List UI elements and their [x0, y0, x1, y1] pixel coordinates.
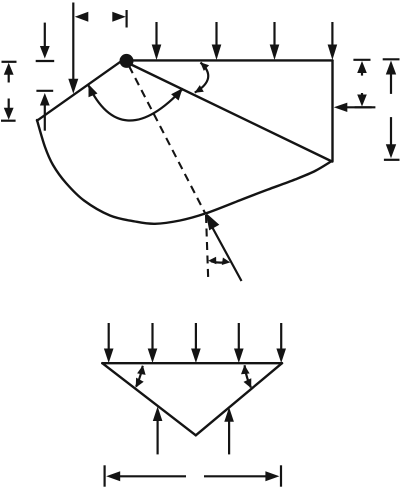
load arrow P4 on top edge [328, 22, 338, 60]
lower load arrow Q3 [191, 323, 201, 363]
lower load arrow Q4 [234, 323, 244, 363]
dashed vertical reference line below contact point [206, 215, 208, 279]
left slant edge from pivot [37, 58, 126, 121]
reaction line with arrow at contact point [206, 213, 242, 281]
left outer dimension: bottom tick [1, 120, 16, 122]
lower figure: top line [102, 362, 282, 364]
lower figure: left slant side [102, 363, 196, 435]
load arrow P1 on top edge [152, 22, 162, 60]
lower load arrow Q1 [104, 323, 114, 363]
right outer dimension: bottom tick [384, 159, 400, 161]
chord from pivot to bottom-right corner [128, 63, 332, 162]
cam arc bottom profile [37, 120, 331, 224]
small angle arc between top edge and chord [195, 62, 210, 93]
top dimension extension tick at pivot centerline [125, 10, 127, 28]
pivot dot O [120, 54, 134, 68]
bottom dimension: right line and arrow [204, 471, 279, 481]
bottom dimension: right extension tick [280, 465, 282, 486]
left outer dimension: top tick [2, 61, 17, 63]
small angle arc between dashed vertical and reaction line [208, 257, 230, 265]
lower load arrow Q5 [276, 323, 286, 363]
right outer dimension: down arrow [386, 117, 396, 158]
load arrow P2 on top edge [212, 22, 222, 60]
right outer dimension: top tick [383, 58, 400, 60]
left inner dimension: top tick [36, 60, 55, 62]
left inner dimension: down arrow above [40, 23, 50, 59]
large angle arc under pivot [88, 84, 183, 120]
left inner dimension: up arrow below [40, 93, 50, 131]
right inner dimension: up arrow [357, 61, 367, 76]
bottom dimension: left arrow and line [106, 471, 186, 481]
right inner dimension: top tick [353, 59, 370, 61]
lower support reaction arrow right [224, 407, 234, 454]
lower load arrow Q2 [148, 323, 158, 363]
right inner dimension: bottom tick [355, 106, 372, 108]
long force arrow F on left slant [68, 3, 78, 94]
left inner dimension: bottom tick [36, 90, 53, 92]
dashed radial line from pivot to contact point [129, 66, 206, 215]
top horizontal dimension: right arrowhead [112, 12, 126, 22]
top horizontal dimension: left arrowhead at force line [75, 12, 89, 22]
load arrow P3 on top edge [270, 22, 280, 60]
left outer dimension: up arrow [4, 63, 14, 83]
lower right angle arc [241, 365, 251, 388]
lower support reaction arrow left [153, 407, 163, 455]
lower left angle arc [136, 365, 146, 387]
lower figure: right slant side [196, 363, 282, 435]
right outer dimension: up arrow [386, 61, 396, 94]
right inner dimension: down arrow [357, 93, 367, 107]
horizontal arrow pointing left at right edge [334, 103, 376, 112]
bottom dimension: left extension tick [103, 465, 105, 486]
right edge of plate [331, 60, 333, 161]
left outer dimension: down arrow [4, 99, 14, 120]
top edge of plate [127, 59, 333, 61]
